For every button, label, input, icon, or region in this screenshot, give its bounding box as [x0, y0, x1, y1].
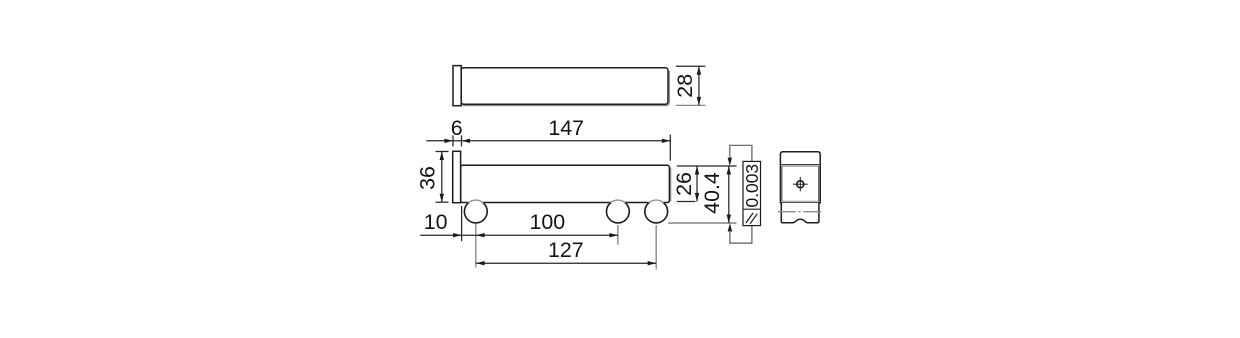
svg-text:28: 28 [673, 74, 697, 98]
wheel centerline 1 (grey) [475, 224, 477, 268]
side view: hole center mark [793, 177, 808, 191]
top view: rail body 147 long [461, 68, 668, 104]
dimension 6/147 extension lines [453, 135, 670, 161]
dimension 6 / 147 line [426, 139, 670, 143]
side view: carriage band inner edges [782, 166, 819, 201]
parallelism symbol [746, 213, 753, 223]
svg-text:10: 10 [424, 210, 448, 234]
front view: carriage body 26 high [461, 165, 670, 202]
dimension 10 extension line [461, 206, 463, 241]
svg-text:100: 100 [529, 210, 565, 234]
dimension 36 line with arrows [440, 152, 444, 203]
dimension 28 extension line top [676, 65, 706, 67]
dimension 26 line with arrows [695, 166, 699, 202]
tolerance leader bottom (grey) [728, 223, 752, 243]
roller wheel 2 [607, 200, 630, 223]
svg-text:147: 147 [548, 116, 584, 140]
dimension 127 line [476, 261, 656, 265]
dimension 40.4 line with arrows [727, 166, 731, 223]
dimension 40.4 extension line bottom [668, 222, 737, 224]
svg-text:0.003: 0.003 [742, 164, 762, 208]
side view: upper body outline [780, 152, 820, 203]
front view: left flange bar 36 high [453, 151, 461, 202]
top view: left flange 6 wide [453, 66, 461, 106]
svg-text:6: 6 [451, 116, 463, 140]
roller wheel 3 [645, 200, 668, 223]
side view: lower section with bottom notch [781, 203, 819, 223]
dimension 28 extension line bottom (grey) [676, 104, 706, 106]
dimension 26 extension lines [677, 166, 737, 202]
roller wheel 1 [464, 200, 487, 223]
wheel centerline 3 (grey) [655, 225, 657, 269]
front view: carriage body grey accents [462, 166, 671, 202]
svg-text:36: 36 [416, 166, 440, 190]
dimension 36 extension lines [436, 152, 449, 203]
svg-text:26: 26 [672, 172, 696, 196]
tolerance leader top (grey) [728, 145, 752, 166]
wheel centerline 2 (grey) [617, 225, 619, 245]
top view: rail shadow (grey, bottom/right) [463, 69, 670, 106]
svg-text:127: 127 [548, 238, 584, 262]
dimension 28 line with arrows [697, 66, 701, 105]
feature control frame 0.003 parallelism [742, 161, 762, 225]
side view: horizontal centerline (dash-dot) [778, 211, 823, 213]
dimension 10 / 100 line [420, 233, 618, 237]
svg-text:40.4: 40.4 [700, 172, 724, 214]
